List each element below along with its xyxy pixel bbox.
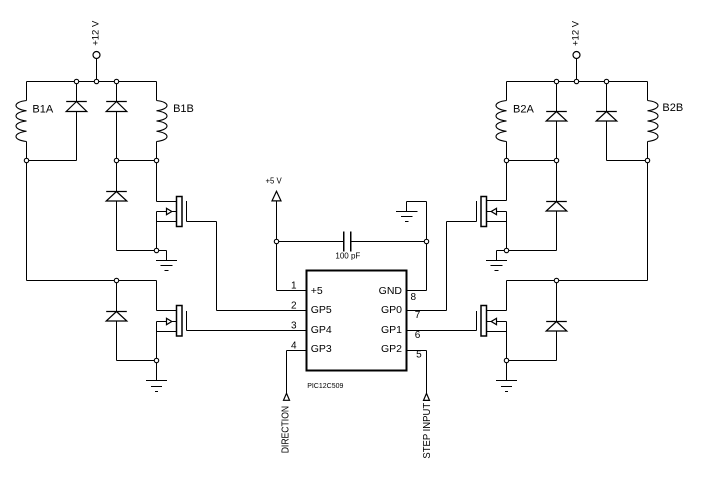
svg-text:4: 4 [291,341,297,352]
svg-text:B2A: B2A [513,104,534,116]
svg-text:7: 7 [415,310,421,321]
svg-text:STEP INPUT: STEP INPUT [422,403,433,459]
svg-text:GP2: GP2 [381,343,402,355]
svg-text:GP4: GP4 [311,324,332,336]
svg-text:5: 5 [416,350,422,361]
svg-text:100 pF: 100 pF [335,252,360,261]
svg-text:+5 V: +5 V [266,176,283,185]
svg-text:8: 8 [411,292,417,303]
svg-text:B1A: B1A [32,103,53,115]
svg-text:DIRECTION: DIRECTION [280,406,291,453]
svg-text:PIC12C509: PIC12C509 [307,383,343,390]
svg-text:1: 1 [291,281,297,292]
svg-text:GP5: GP5 [311,304,332,316]
svg-text:+12 V: +12 V [570,20,581,46]
svg-text:B1B: B1B [173,103,194,115]
svg-text:GP0: GP0 [381,304,402,316]
svg-text:2: 2 [291,301,297,312]
svg-text:3: 3 [291,321,297,332]
svg-text:6: 6 [415,330,421,341]
svg-text:B2B: B2B [662,102,683,114]
svg-text:+12 V: +12 V [91,20,102,46]
svg-text:GND: GND [379,285,403,297]
svg-text:+5: +5 [311,285,323,297]
svg-text:GP3: GP3 [311,343,332,355]
svg-text:GP1: GP1 [381,324,402,336]
